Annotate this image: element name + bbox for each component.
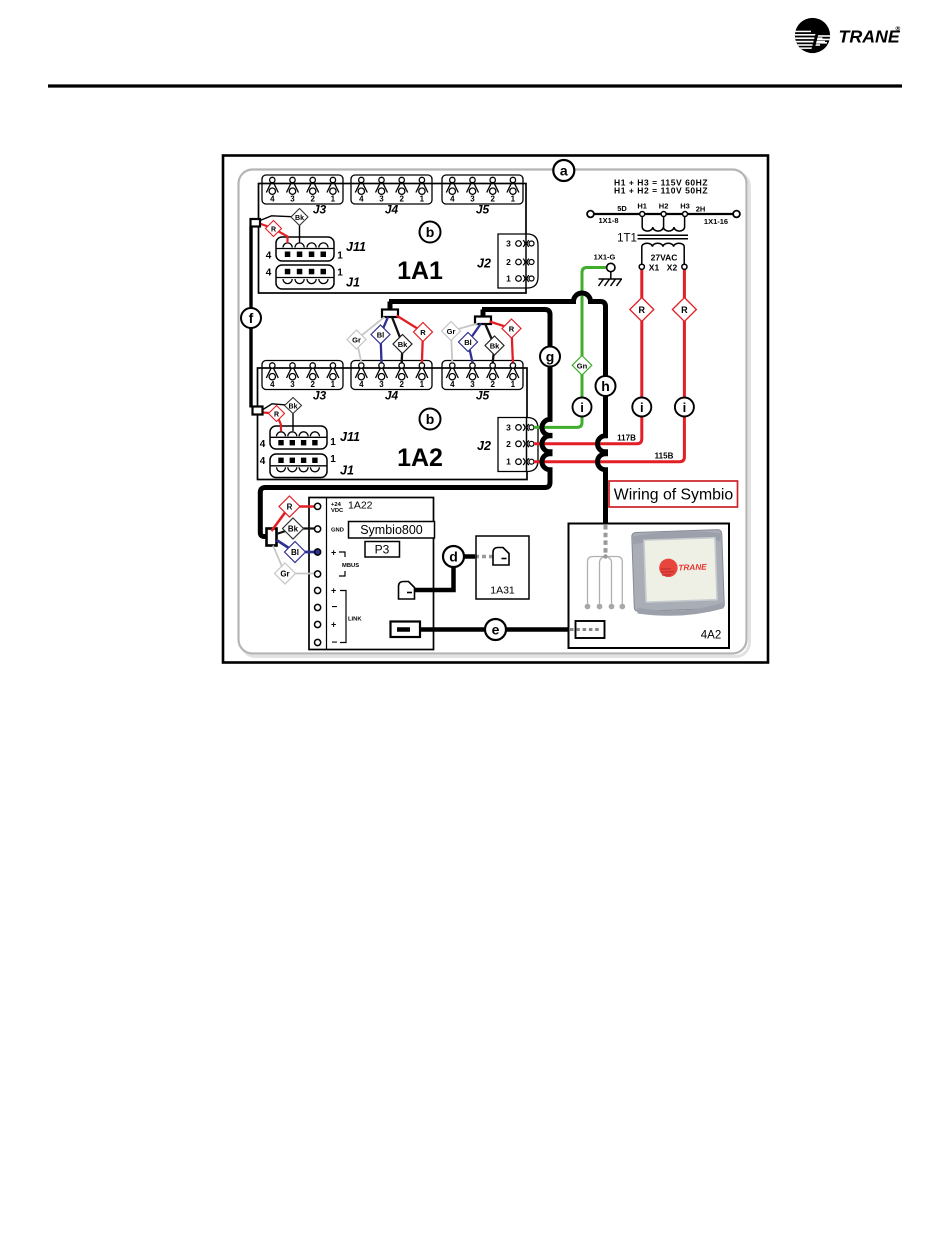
svg-text:i: i: [640, 400, 644, 415]
diamond Bk (1A22): [283, 518, 304, 539]
circled i (115B): [675, 398, 694, 417]
dashed wire into 1A31: [475, 555, 494, 558]
svg-text:−: −: [332, 602, 338, 613]
svg-text:Gr: Gr: [447, 327, 456, 336]
svg-text:Bk: Bk: [295, 215, 304, 222]
svg-text:Gn: Gn: [577, 361, 588, 370]
transformer 1T1 primary winding: [642, 217, 684, 232]
port (1A22): [391, 622, 421, 638]
terminal +24VDC: [315, 503, 321, 509]
board 1A2 outline: [258, 368, 528, 480]
jack (1A31): [493, 548, 509, 566]
harness fan-out wires: [588, 557, 623, 604]
connector box inside 4A2: [576, 621, 605, 638]
svg-text:1: 1: [331, 380, 336, 389]
diamond R (X1 wire): [630, 298, 654, 322]
terminal LINK1: [315, 587, 321, 593]
svg-text:i: i: [580, 400, 584, 415]
svg-text:5D: 5D: [617, 204, 627, 213]
svg-text:J5: J5: [476, 203, 490, 217]
board 1A1: connector J4 box: [351, 175, 432, 204]
svg-text:1: 1: [420, 380, 425, 389]
terminal LINK2: [315, 604, 321, 610]
board 1A2: connector J3 box: [262, 361, 343, 390]
svg-text:4: 4: [450, 380, 455, 389]
svg-text:4A2: 4A2: [701, 630, 721, 642]
svg-text:a: a: [560, 163, 568, 179]
svg-text:+: +: [331, 586, 336, 596]
cable entry square (1A1): [251, 219, 261, 227]
svg-text:J4: J4: [385, 389, 399, 403]
ground terminal circle: [607, 263, 615, 271]
board 1A2: connector J5 box: [442, 361, 523, 390]
wire d stub to dashed: [464, 554, 475, 559]
svg-text:H2: H2: [659, 202, 669, 211]
Wiring of Symbio callout box: [609, 481, 738, 507]
svg-text:LINK: LINK: [348, 617, 362, 623]
wire: red to R diamond (1A2): [263, 413, 281, 432]
wire Bl to J4-3: [381, 317, 389, 363]
wire R to J5-1: [490, 322, 513, 363]
terminal H1: [640, 212, 645, 217]
wire Bl to J5-3: [468, 324, 481, 363]
wire Gr to J4-4: [357, 317, 385, 363]
diamond Bk (J5): [485, 336, 504, 355]
svg-text:R: R: [271, 226, 276, 233]
svg-text:1A2: 1A2: [397, 444, 443, 472]
svg-text:1: 1: [337, 251, 343, 262]
svg-text:4: 4: [266, 251, 272, 262]
Symbio800 label box: [349, 522, 435, 539]
wire: red 115B from J2-1 to X2: [534, 269, 684, 462]
svg-text:J2: J2: [477, 439, 491, 453]
board 1A1: connector J5 box: [442, 175, 523, 204]
inner rounded border shadow: [242, 173, 750, 657]
svg-text:1: 1: [511, 195, 516, 204]
svg-text:1: 1: [506, 274, 511, 284]
svg-text:®: ®: [896, 25, 901, 33]
svg-text:J3: J3: [313, 203, 327, 217]
svg-text:b: b: [426, 411, 435, 427]
svg-text:2H: 2H: [696, 205, 706, 214]
svg-text:Gr: Gr: [280, 570, 289, 579]
svg-text:1X1-16: 1X1-16: [704, 217, 728, 226]
cable clamp (1A22): [267, 529, 277, 546]
terminal H3: [683, 212, 688, 217]
svg-text:4: 4: [270, 380, 275, 389]
wire: green from J2-3 to ground terminal: [534, 268, 607, 428]
harness wire end dots: [585, 604, 591, 610]
svg-text:TRANE: TRANE: [839, 27, 901, 47]
terminal MBUS-: [315, 571, 321, 577]
svg-text:3: 3: [379, 195, 384, 204]
svg-text:1: 1: [337, 268, 343, 279]
dashed harness drop inside 4A2: [604, 525, 608, 555]
svg-text:1: 1: [331, 195, 336, 204]
diamond Gn on green wire: [572, 356, 592, 376]
svg-text:1X1-8: 1X1-8: [598, 216, 618, 225]
TRANE logo circle: [794, 18, 831, 53]
connector J2 (1A2): [498, 418, 538, 472]
wire R to J4-1: [397, 316, 424, 363]
wire Bl to MBUS+: [277, 540, 315, 552]
diamond R (X2 wire): [672, 298, 696, 322]
J3 terminals (1A2): [266, 363, 339, 389]
svg-text:R: R: [420, 328, 426, 337]
svg-text:4: 4: [270, 195, 275, 204]
wire h: thick feed from J4 clamp over to 4A2: [389, 293, 606, 524]
svg-text:3: 3: [290, 195, 295, 204]
clamp stub J5: [481, 310, 486, 318]
svg-text:3: 3: [290, 380, 295, 389]
svg-text:4: 4: [266, 268, 272, 279]
J5 terminals (1A1): [446, 177, 519, 203]
diamond Bl (1A22): [285, 542, 306, 563]
box 1A22 (Symbio controller): [309, 498, 434, 650]
wire R to +24VDC: [272, 507, 315, 532]
svg-text:+: +: [331, 620, 336, 630]
connector J11 (1A2): [260, 426, 337, 450]
diamond R (J5): [502, 319, 521, 338]
svg-text:Bl: Bl: [464, 338, 472, 347]
transformer 1T1 secondary winding: [642, 243, 684, 264]
svg-text:2: 2: [506, 439, 511, 449]
svg-text:d: d: [449, 549, 458, 565]
svg-text:1T1: 1T1: [617, 233, 637, 245]
terminal H2: [661, 212, 666, 217]
diamond Bk (J4): [393, 335, 412, 354]
svg-text:1: 1: [511, 380, 516, 389]
terminal LINK3: [315, 621, 321, 627]
svg-text:J3: J3: [313, 389, 327, 403]
svg-text:1: 1: [420, 195, 425, 204]
board 1A1: connector J3 box: [262, 175, 343, 204]
box 1A31: [476, 536, 529, 599]
terminal strip divider (1A22): [326, 498, 328, 650]
J4 terminals (1A2): [355, 363, 428, 389]
svg-text:b: b: [426, 224, 435, 240]
connector J1 (1A1): [266, 265, 344, 289]
svg-text:4: 4: [260, 456, 266, 467]
svg-text:P3: P3: [375, 543, 390, 557]
svg-text:f: f: [249, 310, 254, 326]
svg-text:Bk: Bk: [288, 525, 299, 534]
svg-text:X1: X1: [649, 263, 660, 273]
svg-text:J2: J2: [477, 257, 491, 271]
wire Gr to MBUS-: [273, 546, 315, 574]
svg-text:R: R: [639, 305, 646, 315]
inner rounded border: [239, 170, 747, 654]
svg-text:+: +: [331, 548, 336, 558]
svg-text:TRANE: TRANE: [678, 562, 707, 572]
wire: black to Bk diamond (1A2): [263, 404, 293, 431]
wire: black to Bk diamond (1A1): [260, 216, 300, 243]
svg-text:i: i: [683, 400, 687, 415]
svg-text:2: 2: [399, 380, 404, 389]
wire g: thick feed from J5 clamp around to 1A22: [260, 310, 550, 537]
diamond Bl (J5): [459, 333, 478, 352]
svg-text:Wiring of Symbio: Wiring of Symbio: [614, 487, 734, 504]
diamond R (1A2): [269, 406, 285, 422]
svg-text:R: R: [681, 305, 688, 315]
wire Bk to J4-2: [392, 317, 403, 363]
circled i (117B): [632, 398, 651, 417]
svg-text:Bl: Bl: [291, 548, 299, 557]
svg-text:3: 3: [470, 195, 475, 204]
diamond R (J4): [414, 323, 433, 342]
cable entry square (1A2): [253, 407, 263, 415]
svg-text:MBUS: MBUS: [342, 563, 359, 569]
connector J1 (1A2): [260, 454, 337, 478]
node 1X1-8 end circle: [587, 211, 594, 218]
wire Bk to GND: [277, 529, 315, 535]
clamp stub J4: [388, 302, 393, 311]
circled h: [596, 376, 616, 396]
svg-text:1X1-G: 1X1-G: [594, 253, 616, 262]
svg-text:X2: X2: [667, 263, 678, 273]
connector J2 (1A1): [498, 234, 538, 288]
svg-text:4: 4: [260, 439, 266, 450]
svg-text:J4: J4: [385, 203, 399, 217]
diamond R (1A22): [279, 496, 300, 517]
terminal GND: [315, 526, 321, 532]
diamond R (1A1): [266, 221, 282, 237]
circled a: [553, 160, 574, 181]
circled f: [241, 308, 261, 328]
svg-text:4: 4: [359, 380, 364, 389]
ground symbol: [599, 272, 623, 286]
wire Bk to J5-2: [485, 324, 495, 363]
diamond Gr (J5): [442, 322, 461, 341]
svg-text:Bk: Bk: [289, 403, 298, 410]
svg-text:e: e: [492, 622, 500, 638]
svg-text:R: R: [274, 411, 279, 418]
svg-text:R: R: [509, 325, 515, 334]
svg-text:H1 + H2 = 110V 50HZ: H1 + H2 = 110V 50HZ: [614, 186, 708, 196]
svg-text:VDC: VDC: [331, 508, 344, 514]
svg-text:27VAC: 27VAC: [651, 253, 678, 263]
touchscreen display (4A2): [632, 529, 725, 617]
circled b (1A2): [420, 409, 441, 430]
svg-text:2: 2: [490, 195, 495, 204]
connector J11 (1A1): [266, 237, 344, 262]
circled e: [485, 619, 506, 640]
wire Gr to J5-4: [451, 324, 478, 363]
svg-text:J1: J1: [346, 276, 360, 290]
svg-text:Symbio800: Symbio800: [360, 523, 423, 537]
transformer 1T1 core: [638, 235, 689, 239]
svg-text:2: 2: [399, 195, 404, 204]
svg-text:H3: H3: [680, 202, 690, 211]
diamond Bk (1A1): [291, 209, 308, 226]
terminal X2: [682, 264, 687, 269]
svg-text:J1: J1: [340, 464, 354, 478]
node 1X1-16 end circle: [733, 211, 740, 218]
svg-text:GND: GND: [331, 528, 344, 534]
svg-text:3: 3: [506, 422, 511, 432]
svg-text:R: R: [287, 503, 293, 512]
box 4A2 (display assembly): [569, 524, 730, 649]
svg-text:1: 1: [506, 457, 511, 467]
wire d: jack to 1A31: [413, 567, 454, 590]
cable clamp J4 harness: [382, 310, 398, 318]
svg-text:4: 4: [359, 195, 364, 204]
svg-text:117B: 117B: [617, 433, 636, 442]
svg-text:J11: J11: [346, 240, 366, 254]
svg-text:1: 1: [330, 437, 336, 448]
terminal MBUS+: [315, 549, 321, 555]
diagram outer frame: [223, 156, 768, 663]
board 1A2: connector J4 box: [351, 361, 432, 390]
svg-text:4: 4: [450, 195, 455, 204]
diamond Gr (1A22): [275, 563, 296, 584]
svg-text:3: 3: [470, 380, 475, 389]
svg-text:115B: 115B: [655, 452, 674, 461]
board 1A1 outline: [259, 184, 527, 294]
svg-text:Bk: Bk: [490, 342, 500, 351]
wire f: vertical trunk between 1A1 and 1A2: [249, 227, 252, 408]
svg-text:H1: H1: [637, 202, 647, 211]
svg-text:Bl: Bl: [377, 331, 385, 340]
P3 label box: [365, 542, 400, 558]
svg-text:J5: J5: [476, 389, 490, 403]
circled d: [443, 546, 464, 567]
svg-text:1A31: 1A31: [490, 585, 515, 597]
svg-text:h: h: [601, 378, 610, 394]
svg-text:Bk: Bk: [398, 340, 408, 349]
svg-text:2: 2: [490, 380, 495, 389]
diamond Bk (1A2): [285, 398, 302, 414]
primary feed wire: [591, 213, 737, 215]
circled g: [540, 347, 560, 367]
svg-text:−: −: [332, 638, 338, 649]
circled i (green): [573, 398, 592, 417]
svg-text:3: 3: [506, 239, 511, 249]
svg-text:2: 2: [506, 257, 511, 267]
terminal LINK4: [315, 639, 321, 645]
TRANE logo on screen: [659, 558, 678, 577]
svg-text:1A1: 1A1: [397, 257, 443, 285]
svg-text:3: 3: [379, 380, 384, 389]
svg-text:g: g: [546, 349, 555, 365]
J5 terminals (1A2): [446, 363, 519, 389]
diamond Gr (J4): [347, 330, 366, 349]
svg-text:Gr: Gr: [352, 336, 361, 345]
wire: red to R diamond (1A1): [260, 224, 288, 244]
svg-text:1: 1: [330, 454, 336, 465]
diamond Bl (J4): [371, 325, 390, 344]
terminal X1: [639, 264, 644, 269]
svg-text:1A22: 1A22: [348, 500, 373, 512]
svg-text:J11: J11: [340, 430, 360, 444]
wire: red 117B from J2-2 to X1: [534, 269, 642, 444]
cable clamp J5 harness: [475, 317, 491, 325]
wire e: port to 4A2: [397, 627, 569, 632]
jack P3 (1A22): [399, 582, 415, 600]
circled b (1A1): [420, 222, 441, 243]
top horizontal rule: [48, 84, 902, 87]
J4 terminals (1A1): [355, 177, 428, 203]
J3 terminals (1A1): [266, 177, 339, 203]
